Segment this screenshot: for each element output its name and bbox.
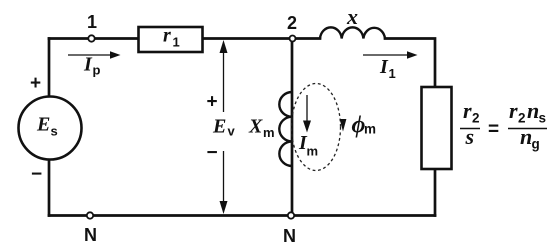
svg-text:p: p (93, 63, 101, 78)
label fraction r2/s (460, 98, 480, 149)
inductor Xm coil (279, 92, 292, 166)
arrow Im (298, 95, 318, 159)
arrow Ip (68, 51, 121, 77)
node 1 (88, 35, 94, 41)
wire top rail left (49, 37, 138, 40)
svg-text:s: s (539, 111, 547, 126)
svg-text:+: + (30, 73, 41, 94)
svg-text:X: X (248, 116, 263, 138)
svg-text:2: 2 (287, 13, 297, 33)
source Es (19, 97, 82, 160)
wire right vertical bottom (434, 169, 437, 216)
inductor x (320, 27, 385, 38)
wire left vertical bottom (48, 160, 51, 216)
svg-text:m: m (263, 125, 275, 140)
wire bottom rail (49, 214, 435, 217)
svg-text:n: n (527, 98, 539, 123)
svg-text:I: I (379, 56, 389, 78)
svg-text:r: r (509, 98, 518, 123)
svg-text:s: s (51, 124, 58, 139)
svg-text:r: r (163, 25, 171, 47)
svg-text:m: m (364, 122, 376, 137)
resistor r2/s (422, 87, 452, 169)
svg-text:−: − (31, 164, 42, 185)
svg-text:x: x (346, 4, 358, 29)
svg-text:n: n (520, 124, 532, 149)
svg-text:v: v (228, 124, 236, 139)
wire middle branch (291, 39, 294, 216)
wire top rail middle (203, 37, 320, 40)
svg-text:E: E (212, 116, 226, 138)
node 2 (290, 36, 296, 42)
resistor r1 (139, 27, 203, 52)
label fraction r2ns/ng (508, 98, 547, 152)
svg-text:r: r (463, 98, 472, 123)
svg-text:I: I (83, 54, 93, 76)
arrow Ev double (220, 40, 228, 214)
svg-text:+: + (207, 92, 218, 113)
arrow I1 (363, 51, 418, 81)
svg-text:=: = (488, 119, 499, 140)
svg-text:E: E (36, 114, 50, 136)
svg-text:−: − (207, 143, 218, 164)
wire left vertical top (48, 39, 51, 97)
arrow phi m (340, 113, 376, 139)
svg-text:s: s (465, 124, 475, 149)
svg-text:m: m (307, 144, 319, 159)
svg-text:N: N (84, 225, 97, 245)
dashed ellipse flux (292, 84, 341, 171)
svg-text:1: 1 (173, 35, 180, 50)
node N left (87, 212, 93, 218)
svg-text:N: N (283, 226, 296, 246)
svg-text:1: 1 (389, 66, 396, 81)
node N middle (288, 212, 294, 218)
svg-text:1: 1 (87, 12, 97, 32)
svg-text:g: g (532, 137, 540, 152)
wire top rail right (385, 39, 435, 88)
